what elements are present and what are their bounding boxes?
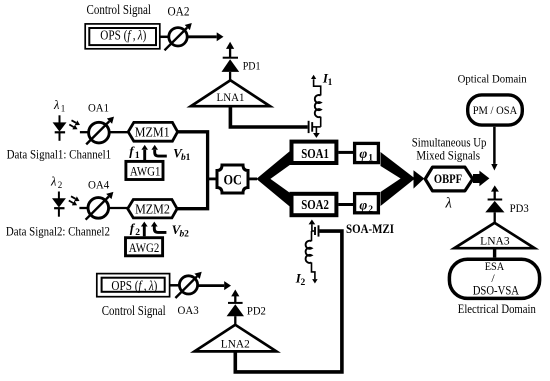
wire OC out to splitter xyxy=(248,177,257,180)
SOA1 xyxy=(292,142,337,163)
attenuator OA1 xyxy=(86,103,109,145)
svg-text:LNA2: LNA2 xyxy=(221,339,250,351)
attenuator OA2 xyxy=(165,3,190,50)
svg-text:1: 1 xyxy=(368,154,373,164)
photodiode PD1 xyxy=(222,42,261,81)
wire SOA2 to phi2 xyxy=(338,203,354,206)
svg-text:OPS (f , λ): OPS (f , λ) xyxy=(111,278,157,293)
svg-text:Data Signal2: Channel2: Data Signal2: Channel2 xyxy=(6,225,110,239)
attenuator OA4 xyxy=(86,179,110,219)
arrow bias into SOA1 xyxy=(315,127,317,133)
wire LNA3 to ESA xyxy=(493,248,496,257)
svg-text:OPS (f , λ): OPS (f , λ) xyxy=(100,27,146,42)
coupler OC xyxy=(217,165,248,193)
arrow OBPF output xyxy=(473,171,489,187)
arrow f2 into MZM2 xyxy=(130,220,145,238)
svg-text:λ: λ xyxy=(53,98,60,112)
svg-text:OA1: OA1 xyxy=(88,103,109,115)
svg-text:φ: φ xyxy=(359,146,367,161)
splitter (black Y) xyxy=(256,150,291,208)
wire OA1 to MZM1 xyxy=(109,131,128,133)
wire junction to L2 xyxy=(311,231,313,241)
svg-text:LNA1: LNA1 xyxy=(217,92,245,104)
phase shifter phi2 xyxy=(355,194,379,215)
svg-text:Control Signal: Control Signal xyxy=(87,2,152,17)
laser LD1 emission arrows xyxy=(69,120,76,127)
wire OPS1 to OA2 xyxy=(160,36,169,39)
laser LD2 emission arrows xyxy=(69,196,76,203)
combiner output arrowhead xyxy=(414,170,425,188)
svg-text:MZM1: MZM1 xyxy=(135,125,170,140)
attenuator OA3 xyxy=(175,276,199,317)
svg-text:OBPF: OBPF xyxy=(434,171,462,186)
phase shifter phi1 xyxy=(355,143,379,163)
svg-text:AWG2: AWG2 xyxy=(129,240,160,255)
amplifier LNA3 xyxy=(454,223,534,248)
svg-text:Optical Domain: Optical Domain xyxy=(458,73,527,85)
arrow PM/OSA down to node xyxy=(493,127,496,164)
OPS box 2 xyxy=(97,274,170,297)
svg-text:1: 1 xyxy=(328,78,333,88)
svg-text:λ: λ xyxy=(50,175,57,189)
arrow f1 into MZM1 xyxy=(129,144,144,162)
svg-text:DSO-VSA: DSO-VSA xyxy=(473,283,519,297)
amplifier LNA2 xyxy=(195,325,277,352)
arrow OA3 output xyxy=(198,284,225,287)
wire LNA2 output to bias-T 2 xyxy=(235,231,342,372)
laser LD1 xyxy=(53,98,67,141)
wire OA4 to MZM2 xyxy=(109,207,128,209)
PM / OSA box xyxy=(468,95,523,125)
svg-text:1: 1 xyxy=(135,151,140,161)
wire LNA1 output to bias-T 1 capacitor xyxy=(230,106,307,127)
svg-text:1: 1 xyxy=(61,103,65,113)
AWG1 box xyxy=(126,161,163,179)
svg-text:λ: λ xyxy=(445,196,452,212)
bias-T 1 capacitor C1 xyxy=(309,121,321,133)
current source I1 arrow xyxy=(314,71,333,96)
wire LD2 to OA4 xyxy=(79,207,88,209)
OPS box 1 xyxy=(85,24,160,49)
wire SOA1 to phi1 xyxy=(338,151,354,154)
inductor L2 xyxy=(306,241,312,263)
svg-text:PM / OSA: PM / OSA xyxy=(473,105,518,117)
svg-text:LNA3: LNA3 xyxy=(480,236,510,248)
svg-text:Mixed Signals: Mixed Signals xyxy=(416,148,480,162)
svg-text:SOA1: SOA1 xyxy=(301,146,329,161)
svg-text:φ: φ xyxy=(359,197,367,212)
svg-text:PD1: PD1 xyxy=(243,61,261,73)
svg-text:Data Signal1: Channel1: Data Signal1: Channel1 xyxy=(7,147,112,161)
svg-text:1: 1 xyxy=(186,153,191,163)
ESA / DSO-VSA box xyxy=(449,259,539,298)
amplifier LNA1 xyxy=(191,80,270,106)
wire MZM outputs vertical bus xyxy=(178,132,208,209)
svg-text:Control Signal: Control Signal xyxy=(102,303,166,318)
svg-text:OA4: OA4 xyxy=(88,179,110,191)
svg-text:PD2: PD2 xyxy=(247,305,266,317)
photodiode PD3 xyxy=(485,185,529,222)
svg-text:OA3: OA3 xyxy=(178,305,199,317)
svg-text:SOA2: SOA2 xyxy=(301,197,329,212)
wire LD1 to OA1 xyxy=(80,131,89,133)
modulator MZM2 xyxy=(128,200,177,218)
svg-text:2: 2 xyxy=(58,180,63,190)
inductor L1 xyxy=(315,95,321,117)
wire bus to OC xyxy=(207,177,218,180)
arrow Vb1 into MZM1 xyxy=(155,146,191,164)
svg-text:2: 2 xyxy=(368,205,373,215)
svg-text:OA2: OA2 xyxy=(168,3,190,18)
svg-text:OC: OC xyxy=(224,172,242,188)
bias-T 2 capacitor C2 xyxy=(312,225,319,236)
arrow OA2 output xyxy=(187,35,217,38)
AWG2 box xyxy=(126,238,163,256)
laser LD2 xyxy=(50,175,66,217)
svg-text:2: 2 xyxy=(184,229,189,239)
arrow Vb2 into MZM2 xyxy=(154,222,189,240)
wire L1 to junction xyxy=(320,117,322,127)
svg-text:2: 2 xyxy=(301,278,306,288)
current source I2 arrow xyxy=(295,262,315,288)
photodiode PD2 xyxy=(227,290,267,325)
svg-text:MZM2: MZM2 xyxy=(135,202,170,217)
svg-text:Electrical Domain: Electrical Domain xyxy=(458,302,536,316)
svg-text:SOA-MZI: SOA-MZI xyxy=(346,222,394,236)
modulator MZM1 xyxy=(128,122,177,141)
SOA2 xyxy=(292,194,337,215)
combiner (black Y) xyxy=(381,152,416,206)
svg-text:AWG1: AWG1 xyxy=(130,164,161,179)
svg-text:PD3: PD3 xyxy=(510,203,529,215)
arrow bias into SOA2 xyxy=(311,224,313,231)
wire OPS2 to OA3 xyxy=(170,284,179,287)
filter OBPF xyxy=(425,167,473,191)
